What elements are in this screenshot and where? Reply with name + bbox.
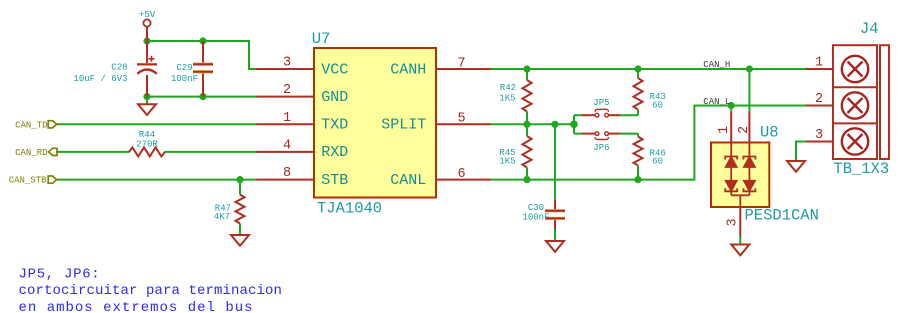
svg-text:10uF / 6V3: 10uF / 6V3	[73, 74, 127, 84]
svg-text:R42: R42	[500, 83, 516, 93]
svg-text:2: 2	[283, 83, 291, 98]
svg-text:2: 2	[737, 126, 752, 134]
svg-text:8: 8	[283, 166, 291, 181]
svg-text:100nF: 100nF	[171, 74, 198, 84]
svg-text:RXD: RXD	[321, 144, 348, 161]
svg-text:U7: U7	[312, 30, 331, 48]
svg-text:TXD: TXD	[321, 117, 348, 134]
svg-text:4: 4	[283, 138, 291, 153]
svg-text:C29: C29	[176, 63, 192, 73]
svg-text:100nF: 100nF	[522, 213, 549, 223]
svg-text:STB: STB	[321, 172, 348, 189]
svg-text:JP5, JP6:: JP5, JP6:	[19, 266, 101, 282]
svg-text:CAN_RD: CAN_RD	[15, 148, 47, 158]
svg-text:60: 60	[652, 156, 663, 166]
svg-text:en ambos extremos del bus: en ambos extremos del bus	[19, 300, 254, 313]
svg-text:3: 3	[283, 56, 291, 71]
svg-text:1: 1	[815, 56, 823, 71]
svg-text:R44: R44	[139, 130, 155, 140]
svg-text:4K7: 4K7	[214, 212, 230, 222]
svg-text:6: 6	[457, 167, 465, 182]
svg-text:PESD1CAN: PESD1CAN	[745, 207, 819, 225]
svg-text:1: 1	[283, 111, 291, 126]
svg-text:JP5: JP5	[593, 98, 609, 108]
svg-text:60: 60	[652, 101, 663, 111]
svg-text:cortocircuitar para terminacio: cortocircuitar para terminacion	[19, 283, 283, 299]
svg-text:3: 3	[815, 128, 823, 143]
svg-text:CANH: CANH	[390, 61, 426, 78]
svg-text:CAN_TD: CAN_TD	[15, 120, 47, 130]
svg-text:CAN_H: CAN_H	[703, 60, 730, 70]
svg-text:7: 7	[457, 56, 465, 71]
svg-text:1K5: 1K5	[499, 93, 515, 103]
svg-text:TB_1X3: TB_1X3	[833, 160, 889, 178]
svg-text:5: 5	[457, 112, 465, 127]
svg-text:CAN_L: CAN_L	[703, 97, 730, 107]
svg-text:CAN_STB: CAN_STB	[9, 176, 47, 186]
svg-text:CANL: CANL	[390, 172, 426, 189]
svg-text:1K5: 1K5	[499, 156, 515, 166]
svg-text:GND: GND	[321, 89, 348, 106]
svg-text:+5V: +5V	[139, 10, 156, 20]
svg-text:3: 3	[726, 218, 741, 226]
svg-text:270R: 270R	[136, 139, 158, 149]
svg-text:JP6: JP6	[593, 143, 609, 153]
svg-text:C28: C28	[111, 62, 127, 72]
svg-text:VCC: VCC	[321, 61, 348, 78]
svg-text:J4: J4	[860, 20, 879, 38]
svg-text:1: 1	[717, 126, 732, 134]
svg-text:2: 2	[815, 92, 823, 107]
svg-text:U8: U8	[760, 124, 779, 142]
svg-text:SPLIT: SPLIT	[381, 117, 426, 134]
svg-text:TJA1040: TJA1040	[317, 199, 382, 217]
